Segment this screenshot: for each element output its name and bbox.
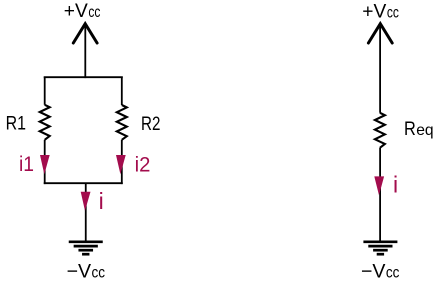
svg-text:−V: −V <box>361 261 386 283</box>
svg-text:i1: i1 <box>19 152 34 176</box>
wire resistor to ground (right) <box>379 148 381 242</box>
+Vcc supply arrow (right) <box>368 24 392 43</box>
svg-text:i2: i2 <box>135 152 151 176</box>
wire from +Vcc arrow to top node (left) <box>84 25 86 78</box>
svg-text:−V: −V <box>67 261 92 283</box>
wire bottom node to ground (left) <box>85 183 87 241</box>
svg-text:+V: +V <box>362 0 386 22</box>
svg-text:R2: R2 <box>141 113 160 135</box>
wire right branch lower lead <box>121 140 123 184</box>
svg-text:eq: eq <box>416 122 433 139</box>
wire right branch upper lead <box>121 77 123 106</box>
svg-text:R: R <box>404 118 416 140</box>
svg-text:i: i <box>393 171 398 197</box>
wire from +Vcc arrow to resistor (right) <box>379 25 381 113</box>
node +Vcc label (left) <box>64 0 101 22</box>
svg-text:i: i <box>99 188 104 214</box>
wire top horizontal (left circuit) <box>44 76 123 78</box>
node +Vcc label (right) <box>362 0 399 22</box>
current arrow i (left total) <box>81 192 91 211</box>
resistor R2 zigzag <box>117 105 127 140</box>
svg-text:cc: cc <box>92 265 106 282</box>
resistor Req zigzag <box>375 113 385 148</box>
svg-text:cc: cc <box>387 4 399 21</box>
+Vcc supply arrow (left) <box>73 24 97 43</box>
wire left branch lower lead <box>44 140 46 184</box>
svg-text:cc: cc <box>386 265 400 282</box>
wire bottom horizontal (left circuit) <box>44 182 123 184</box>
resistor R1 zigzag <box>40 105 50 140</box>
resistor Req label <box>404 118 434 140</box>
node -Vcc label (right) <box>361 261 400 283</box>
wire left branch upper lead <box>44 77 46 105</box>
svg-text:+V: +V <box>64 0 88 22</box>
current arrow i1 <box>40 155 50 174</box>
ground symbol (left) <box>69 242 103 254</box>
current arrow i2 <box>116 155 126 174</box>
ground symbol (right) <box>363 242 397 254</box>
svg-text:cc: cc <box>88 4 100 21</box>
node -Vcc label (left) <box>67 261 106 283</box>
svg-text:R1: R1 <box>6 113 26 135</box>
current arrow i (right) <box>374 176 384 195</box>
